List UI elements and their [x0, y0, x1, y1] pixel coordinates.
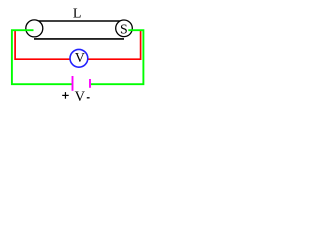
battery negative plate (short)	[89, 79, 91, 88]
battery label - (negative)	[87, 97, 90, 99]
node: left terminal circle of tube	[26, 20, 43, 37]
svg-text:V: V	[75, 89, 86, 105]
node S: right terminal circle of tube	[116, 20, 133, 37]
battery label + (positive)	[62, 94, 68, 96]
battery positive plate (long)	[72, 76, 74, 91]
voltmeter V1 circle	[70, 49, 88, 67]
wire: green battery lead right (from S terminal down to battery)	[91, 30, 143, 84]
tube body bottom line	[34, 38, 124, 40]
tube body top line	[34, 20, 124, 22]
wire: green battery lead left (from left terminal down to battery)	[12, 30, 72, 84]
wire: red voltmeter leads (left terminal, down, across to right terminal)	[15, 31, 141, 59]
svg-text:S: S	[120, 21, 128, 36]
svg-text:V: V	[75, 50, 85, 65]
svg-text:L: L	[73, 7, 82, 22]
